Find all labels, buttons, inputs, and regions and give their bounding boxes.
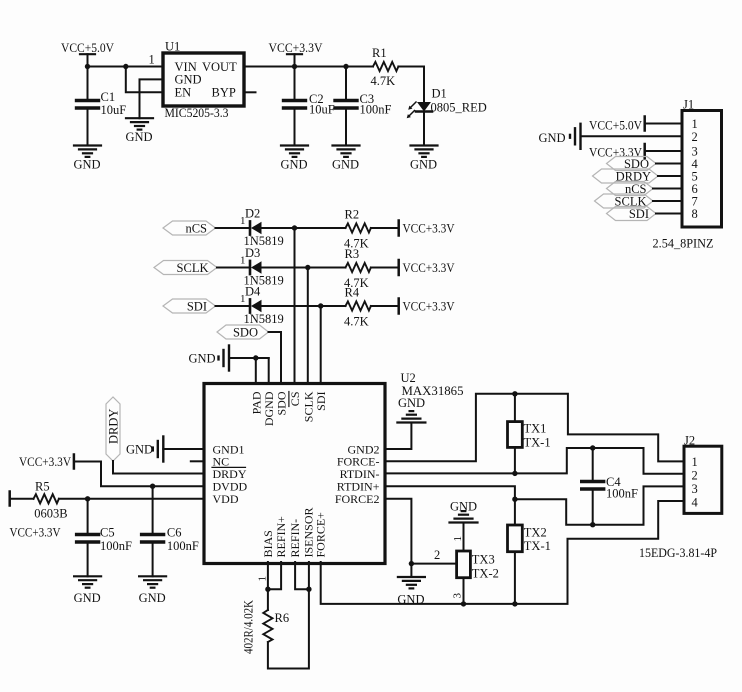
svg-text:EN: EN [175, 86, 192, 100]
power flag VCC+3.3V at R5 [10, 492, 61, 540]
diode D4 [244, 285, 284, 327]
ground symbol at J1 pin2 [539, 124, 581, 149]
svg-text:GND: GND [126, 130, 153, 144]
connector J2 [639, 434, 722, 561]
svg-text:0805_RED: 0805_RED [431, 101, 487, 115]
svg-text:D4: D4 [245, 285, 261, 299]
svg-text:GND: GND [74, 158, 101, 172]
ground under D1 [411, 146, 438, 157]
ground under C6 [139, 576, 166, 587]
net flag SCLK [154, 261, 217, 275]
svg-text:J2: J2 [684, 434, 695, 448]
wire R5 to VDD [59, 498, 204, 500]
wire J1 pin2 [581, 135, 683, 137]
node junction C4 bottom [590, 522, 595, 527]
wire R4 to VCC [371, 305, 398, 307]
resistor R4 [344, 286, 371, 329]
svg-text:GND: GND [126, 442, 153, 456]
wire D1 bottom lead [423, 112, 425, 146]
svg-text:GND: GND [281, 158, 308, 172]
resistor R1 [371, 46, 399, 88]
svg-text:100nF: 100nF [606, 487, 638, 501]
wire U1 GND pin to ground [140, 79, 164, 118]
svg-text:FORCE2: FORCE2 [335, 492, 380, 506]
svg-text:GND: GND [398, 396, 425, 410]
wire DGND vertical [268, 358, 270, 384]
node junction at EN branch [123, 64, 128, 69]
svg-text:VCC+5.0V: VCC+5.0V [589, 118, 642, 132]
wire RTDIN- to C4 top and J2 pin2 [385, 448, 684, 474]
svg-text:1N5819: 1N5819 [244, 312, 284, 326]
svg-text:2: 2 [692, 468, 698, 482]
ground under FORCE2 [398, 577, 425, 588]
ground under U1 GND pin [126, 118, 153, 129]
node junction at C3 [343, 64, 348, 69]
wire TX3 pin1 lead [463, 523, 465, 552]
svg-text:2.54_8PINZ: 2.54_8PINZ [653, 237, 714, 251]
svg-text:CS: CS [288, 392, 302, 407]
fuse TX2 [508, 525, 551, 553]
power flag VCC+3.3V [269, 41, 323, 67]
capacitor C2 [284, 67, 335, 146]
fuse TX1 [508, 422, 551, 450]
ground under C3 [333, 146, 360, 157]
wire GND2 to ground [385, 423, 411, 450]
wire J1 pin7 [653, 200, 682, 202]
wire ground to PAD and DGND [229, 357, 269, 359]
wire D3 to R3 [262, 267, 346, 269]
wire 3.3V rail VOUT to R1 [244, 66, 373, 68]
svg-text:4.7K: 4.7K [344, 315, 369, 329]
wire D4 to R4 [262, 305, 346, 307]
svg-text:U2: U2 [401, 371, 416, 385]
diode D3 [244, 246, 284, 288]
wire NC stub [191, 460, 204, 462]
svg-text:TX2: TX2 [524, 526, 547, 540]
wire TX3 pin3 lead [463, 578, 465, 604]
svg-text:SDI: SDI [314, 392, 328, 411]
diode D2 [244, 207, 284, 249]
wire DRDY to U2 [113, 461, 204, 474]
svg-text:100nF: 100nF [360, 103, 392, 117]
wire VCC to R5 [11, 498, 34, 500]
svg-text:FORCE+: FORCE+ [314, 512, 328, 558]
svg-text:VCC+3.3V: VCC+3.3V [19, 455, 71, 469]
wire J1 pin4 [656, 163, 682, 165]
svg-text:VOUT: VOUT [202, 60, 237, 74]
wire D2 to R2 [262, 227, 346, 229]
svg-text:1: 1 [256, 576, 268, 582]
net flag SCLK at J1 pin7 [595, 194, 654, 209]
node junction TX2 top [512, 497, 517, 502]
wire CS bus vertical [294, 228, 296, 384]
svg-text:VCC+5.0V: VCC+5.0V [61, 41, 114, 55]
node junction at PAD [253, 355, 258, 360]
svg-text:15EDG-3.81-4P: 15EDG-3.81-4P [639, 546, 717, 560]
svg-text:VCC+3.3V: VCC+3.3V [403, 300, 455, 314]
wire R6 top lead [267, 589, 269, 610]
wire TX2 top lead [514, 499, 516, 525]
svg-text:2: 2 [434, 548, 440, 562]
svg-text:C6: C6 [167, 526, 182, 540]
power flag VCC+3.3V row2 [399, 260, 455, 275]
svg-text:100nF: 100nF [167, 539, 199, 553]
node junction CS bus [292, 225, 297, 230]
svg-text:VCC+3.3V: VCC+3.3V [403, 261, 455, 275]
svg-text:4.7K: 4.7K [371, 74, 396, 88]
svg-text:MIC5205-3.3: MIC5205-3.3 [165, 106, 229, 120]
svg-text:VCC+3.3V: VCC+3.3V [269, 41, 323, 55]
svg-text:R2: R2 [345, 208, 360, 222]
svg-text:R6: R6 [275, 611, 290, 625]
net flag nCS [163, 221, 216, 235]
node junction TX1 bottom [512, 471, 517, 476]
wire FORCE+ bottom net to J2 pin4 [321, 501, 684, 604]
wire FORCE- to TX1 top and J2 pin1 [385, 394, 684, 462]
capacitor C4 [582, 448, 638, 525]
svg-text:SDO: SDO [233, 325, 258, 339]
LED D1 [407, 87, 487, 119]
net flag SDI [163, 299, 216, 313]
svg-text:R3: R3 [345, 247, 360, 261]
svg-text:SCLK: SCLK [301, 391, 315, 422]
svg-text:nCS: nCS [185, 221, 207, 235]
ground under C1 [74, 146, 101, 157]
node junction at C6 [150, 484, 155, 489]
power flag VCC+3.3V row1 [399, 221, 455, 236]
capacitor C6 [142, 486, 199, 576]
svg-text:BYP: BYP [212, 86, 236, 100]
svg-text:R5: R5 [35, 480, 50, 494]
wire VCC to DVDD [75, 462, 204, 487]
wire J1 pin8 [656, 213, 682, 215]
node junction BIAS R6 [265, 587, 270, 592]
wire EN branch [126, 67, 163, 93]
svg-text:GND: GND [139, 591, 166, 605]
thermistor TX3 [457, 551, 499, 581]
wire BIAS to REFIN+ [268, 562, 281, 589]
svg-text:GND: GND [410, 158, 437, 172]
wire SDO to U2 [269, 332, 282, 384]
svg-text:1: 1 [452, 536, 464, 542]
resistor R2 [344, 208, 371, 251]
op-amp U1 regulator MIC5205 [163, 40, 244, 121]
wire nCS to D2 [216, 227, 250, 229]
svg-text:SDO: SDO [275, 391, 289, 415]
wire REFIN- to ISENSOR [295, 562, 309, 589]
svg-text:10uF: 10uF [309, 103, 335, 117]
wire VCC+5.0V to U1 VIN [88, 66, 164, 68]
wire J1 pin6 [653, 188, 682, 190]
wire SCLK to D3 [217, 267, 249, 269]
wire GND1 [163, 448, 204, 450]
svg-text:VCC+3.3V: VCC+3.3V [403, 222, 455, 236]
power flag VCC+3.3V to DVDD [19, 455, 74, 470]
net flag SDO at J1 pin4 [607, 157, 657, 172]
svg-text:VDD: VDD [213, 492, 239, 506]
svg-text:D3: D3 [245, 246, 260, 260]
connector J1 [653, 98, 722, 251]
svg-text:3: 3 [692, 482, 698, 496]
wire FORCE2 down to ground [385, 499, 411, 577]
svg-text:VCC+3.3V: VCC+3.3V [10, 525, 61, 539]
wire SCLK bus vertical [307, 268, 309, 384]
capacitor C1 [77, 101, 99, 109]
svg-text:8: 8 [692, 207, 698, 221]
capacitor C5 [77, 499, 132, 577]
svg-text:3: 3 [452, 593, 464, 599]
node junction TX2 bottom [512, 601, 517, 606]
power flag VCC+5.0V [61, 41, 114, 67]
wire RTDIN+ to TX2 top C4 bottom and J2 pin3 [385, 486, 684, 525]
svg-text:1: 1 [692, 455, 698, 469]
svg-text:SCLK: SCLK [177, 261, 209, 275]
wire SDI to D4 [216, 305, 250, 307]
wire R3 to VCC [371, 267, 398, 269]
resistor R6 [241, 600, 289, 654]
wire J1 pin3 [646, 150, 683, 152]
power flag VCC+3.3V row3 [399, 299, 455, 314]
ground above GND2 [397, 396, 425, 423]
wire C1 bottom lead [87, 109, 89, 146]
ground above TX3 [450, 500, 478, 523]
ground symbol at PAD/DGND [189, 346, 230, 371]
svg-text:4: 4 [692, 495, 699, 509]
svg-text:2: 2 [692, 130, 698, 144]
node junction SDI bus [318, 303, 323, 308]
ground under C2 [281, 146, 308, 157]
svg-text:TX-1: TX-1 [524, 436, 551, 450]
wire PAD vertical [255, 358, 257, 384]
net flag SDO [217, 325, 269, 339]
net flag DRDY vertical [106, 397, 121, 461]
svg-text:TX-1: TX-1 [524, 539, 551, 553]
node junction TX3 bottom [461, 601, 466, 606]
svg-text:REFIN+: REFIN+ [274, 516, 288, 558]
resistor R5 [34, 480, 68, 521]
capacitor C3 [335, 67, 392, 146]
ground symbol at GND1 [126, 437, 163, 462]
IC U2 MAX31865 [204, 384, 385, 564]
svg-text:PAD: PAD [249, 391, 263, 414]
wire TX1 bottom lead [514, 447, 516, 473]
svg-text:10uF: 10uF [101, 103, 127, 117]
net flag nCS at J1 pin6 [607, 182, 654, 197]
net flag SDI at J1 pin8 [607, 207, 657, 222]
svg-text:1: 1 [149, 53, 155, 67]
svg-text:R4: R4 [345, 286, 360, 300]
svg-text:0603B: 0603B [34, 506, 67, 520]
node junction at C5 [85, 496, 90, 501]
svg-text:TX3: TX3 [472, 553, 495, 567]
svg-text:GND: GND [189, 351, 216, 365]
wire R6 bottom loop to REFIN- ISENSOR [268, 589, 309, 668]
svg-text:C5: C5 [100, 526, 115, 540]
wire C1 top lead [87, 67, 89, 101]
wire TX2 bottom lead [514, 552, 516, 604]
wire BYP stub [244, 91, 256, 93]
svg-text:TX-2: TX-2 [472, 567, 499, 581]
svg-text:100nF: 100nF [100, 539, 132, 553]
resistor R3 [344, 247, 371, 290]
svg-text:GND: GND [539, 131, 566, 145]
wire R2 to VCC [371, 227, 398, 229]
wire J1 pin1 [646, 123, 683, 125]
power flag VCC+5.0V at J1 pin1 [589, 117, 645, 133]
node junction TX1 top [512, 391, 517, 396]
svg-text:J1: J1 [683, 98, 694, 112]
svg-text:SDI: SDI [187, 299, 207, 313]
svg-text:R1: R1 [372, 46, 387, 60]
node junction at C2 [292, 64, 297, 69]
svg-text:U1: U1 [165, 40, 180, 54]
svg-text:DRDY: DRDY [107, 409, 121, 444]
node junction C4 top [590, 445, 595, 450]
svg-text:D2: D2 [245, 207, 260, 221]
ground under C5 [74, 576, 101, 587]
node junction TX3 pin2 branch [409, 561, 414, 566]
svg-text:TX1: TX1 [524, 422, 547, 436]
node junction at C1 [85, 64, 90, 69]
svg-text:REFIN-: REFIN- [288, 519, 302, 558]
wire J1 pin5 [658, 175, 682, 177]
wire TX1 top lead [514, 394, 516, 422]
wire SDI bus vertical [320, 306, 322, 384]
svg-text:GND: GND [74, 591, 101, 605]
net flag DRDY at J1 pin5 [593, 169, 659, 184]
node junction SCLK bus [305, 265, 310, 270]
node junction ISENSOR R6 [306, 587, 311, 592]
svg-text:BIAS: BIAS [261, 530, 275, 557]
wire to TX3 pin2 [411, 563, 456, 565]
label U2 MAX31865 [401, 371, 464, 398]
svg-text:GND: GND [332, 158, 359, 172]
wire D1 top lead [423, 67, 425, 103]
wire ISENSOR vertical [308, 562, 310, 589]
svg-text:402R/4.02K: 402R/4.02K [241, 600, 255, 654]
svg-text:D1: D1 [432, 87, 447, 101]
svg-text:C1: C1 [101, 90, 116, 104]
svg-text:SDI: SDI [629, 207, 649, 221]
wire R1 to D1 [398, 66, 424, 68]
power flag VCC+3.3V at J1 pin3 [589, 144, 645, 159]
